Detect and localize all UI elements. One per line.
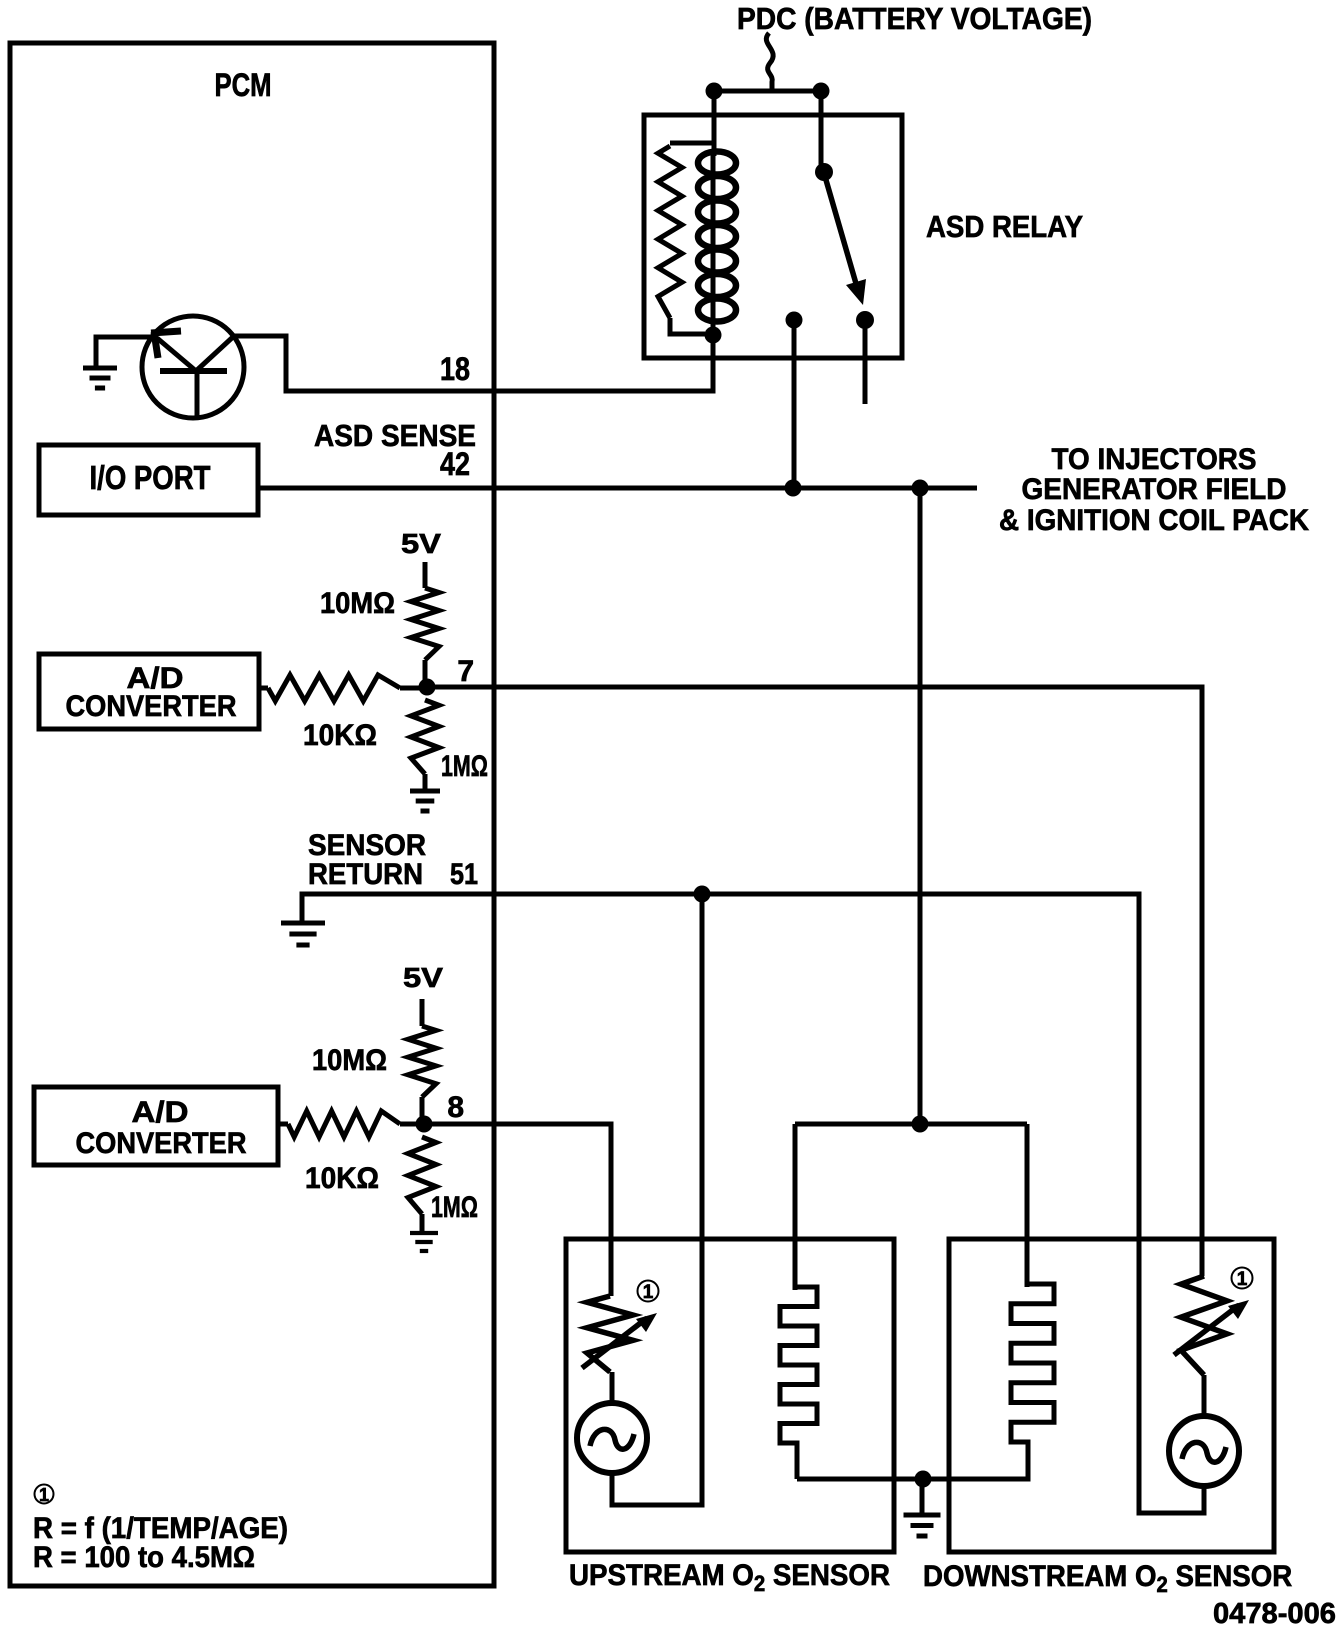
svg-text:18: 18 bbox=[440, 351, 470, 387]
note R = f (1/TEMP/AGE) bbox=[33, 1512, 288, 1545]
label RETURN bbox=[308, 858, 423, 891]
label ASD RELAY bbox=[926, 209, 1083, 244]
wire: heater drop upstream bbox=[793, 1124, 798, 1290]
wire: relay switch common bbox=[819, 91, 824, 168]
wire: heater feed from 42 bus bbox=[918, 488, 923, 1124]
label 5V (upper) bbox=[401, 528, 441, 559]
junction dot (42/heater feed) bbox=[912, 480, 929, 497]
junction dot (divider 2) bbox=[416, 1116, 433, 1133]
label CONVERTER (upper) bbox=[66, 690, 237, 723]
variable resistor (upstream sensing element) bbox=[582, 1296, 657, 1372]
resistor 1M ohm (upper) bbox=[411, 700, 439, 789]
svg-text:8: 8 bbox=[447, 1091, 464, 1124]
wire 51 (sensor return) bbox=[302, 894, 1204, 1513]
svg-text:10MΩ: 10MΩ bbox=[312, 1044, 387, 1077]
label PCM bbox=[215, 67, 272, 103]
note circle 1 (upstream) bbox=[638, 1281, 659, 1304]
svg-text:5V: 5V bbox=[401, 528, 441, 559]
junction dot (coil bottom) bbox=[705, 327, 722, 344]
label 10M ohm (lower) bbox=[312, 1044, 387, 1077]
note R = 100 to 4.5M ohm bbox=[33, 1541, 255, 1574]
pin label 18 bbox=[440, 351, 470, 387]
svg-text:TO INJECTORS: TO INJECTORS bbox=[1052, 443, 1257, 476]
svg-text:PDC (BATTERY VOLTAGE): PDC (BATTERY VOLTAGE) bbox=[737, 1, 1092, 36]
wire: transistor base to ground bbox=[96, 337, 152, 366]
wire 8 (downstream sense) bbox=[424, 1124, 611, 1296]
junction dot (51 branch) bbox=[694, 886, 711, 903]
label 10K ohm (lower) bbox=[305, 1162, 379, 1195]
label IGNITION COIL PACK bbox=[999, 504, 1309, 537]
wire: 5V lead (lower) bbox=[420, 999, 425, 1026]
wire: resistor to AC source (upstream) bbox=[610, 1372, 615, 1406]
wire: PDC squiggle feed bbox=[766, 33, 773, 91]
svg-text:UPSTREAM O2 SENSOR: UPSTREAM O2 SENSOR bbox=[569, 1559, 890, 1596]
resistor 1M ohm (lower) bbox=[408, 1137, 436, 1231]
label SENSOR bbox=[308, 829, 426, 862]
pin label 51 bbox=[450, 858, 478, 891]
junction dot (heater rail) bbox=[912, 1116, 929, 1133]
svg-text:GENERATOR FIELD: GENERATOR FIELD bbox=[1022, 473, 1287, 506]
svg-text:10KΩ: 10KΩ bbox=[303, 719, 377, 752]
wire: relay coil top lead bbox=[712, 91, 717, 156]
junction dot (switch contact) bbox=[856, 311, 874, 329]
ground (sensor return) bbox=[281, 923, 325, 945]
ground (transistor) bbox=[83, 368, 117, 388]
junction dot (supply left) bbox=[706, 83, 723, 100]
svg-text:RETURN: RETURN bbox=[308, 858, 423, 891]
junction dot (switch pivot) bbox=[815, 163, 833, 181]
variable resistor (downstream sensing element) bbox=[1174, 1276, 1249, 1375]
A/D converter box (upper) bbox=[39, 654, 259, 729]
junction dot (heater ground) bbox=[915, 1471, 932, 1488]
downstream O2 sensor box bbox=[949, 1239, 1274, 1552]
wire: 51 branch to upstream sensor bbox=[612, 894, 702, 1505]
svg-text:CONVERTER: CONVERTER bbox=[66, 690, 237, 723]
AC source (downstream sensor cell) bbox=[1169, 1416, 1239, 1486]
label ASD SENSE bbox=[314, 418, 476, 453]
pin label 42 bbox=[440, 446, 470, 482]
wire: heater drop downstream bbox=[1025, 1124, 1030, 1287]
wire: 5V lead (upper) bbox=[423, 562, 428, 588]
wire 42 (ASD relay output bus) bbox=[258, 486, 977, 491]
resistor 10K ohm (lower) bbox=[278, 1111, 424, 1137]
upstream O2 sensor box bbox=[566, 1239, 894, 1552]
svg-text:I/O PORT: I/O PORT bbox=[90, 459, 211, 496]
resistor 10M ohm (lower) bbox=[408, 1026, 436, 1124]
wire: relay supply rail bbox=[714, 89, 821, 94]
wire: relay contact stub bbox=[863, 328, 868, 404]
A/D converter box (lower) bbox=[34, 1087, 278, 1165]
note circle 1 (legend) bbox=[35, 1485, 54, 1506]
svg-text:A/D: A/D bbox=[132, 1096, 189, 1129]
resistor (relay coil suppressor) bbox=[658, 143, 714, 334]
label PDC (BATTERY VOLTAGE) bbox=[737, 1, 1092, 36]
label UPSTREAM O2 SENSOR bbox=[569, 1559, 890, 1596]
heater element (upstream) bbox=[780, 1287, 817, 1479]
label 10M ohm (upper) bbox=[320, 587, 395, 620]
svg-text:0478-006: 0478-006 bbox=[1213, 1598, 1336, 1626]
svg-text:10MΩ: 10MΩ bbox=[320, 587, 395, 620]
I/O PORT box bbox=[39, 445, 258, 515]
svg-text:1: 1 bbox=[1237, 1269, 1248, 1290]
label 5V (lower) bbox=[403, 962, 443, 993]
svg-text:ASD RELAY: ASD RELAY bbox=[926, 209, 1083, 244]
label I/O PORT bbox=[90, 459, 211, 496]
svg-text:PCM: PCM bbox=[215, 67, 272, 103]
label 10K ohm (upper) bbox=[303, 719, 377, 752]
svg-text:CONVERTER: CONVERTER bbox=[76, 1127, 247, 1160]
wire: resistor to AC source (downstream) bbox=[1202, 1375, 1207, 1418]
wire 7 (upstream sense) bbox=[427, 687, 1202, 1276]
svg-text:42: 42 bbox=[440, 446, 470, 482]
heater element (downstream) bbox=[1011, 1284, 1054, 1479]
resistor 10K ohm (upper) bbox=[258, 675, 427, 701]
svg-text:1: 1 bbox=[643, 1282, 654, 1303]
junction dot (divider 1) bbox=[419, 679, 436, 696]
svg-text:1MΩ: 1MΩ bbox=[441, 750, 488, 783]
label TO INJECTORS bbox=[1052, 443, 1257, 476]
note circle 1 (downstream) bbox=[1232, 1268, 1253, 1291]
ground (1M upper) bbox=[410, 791, 440, 811]
ASD relay box bbox=[644, 115, 902, 358]
svg-text:1: 1 bbox=[39, 1485, 49, 1505]
transistor Q1 (ASD driver) bbox=[142, 316, 244, 418]
svg-text:DOWNSTREAM O2 SENSOR: DOWNSTREAM O2 SENSOR bbox=[923, 1560, 1292, 1597]
pin label 8 bbox=[447, 1091, 464, 1124]
svg-text:& IGNITION COIL PACK: & IGNITION COIL PACK bbox=[999, 504, 1309, 537]
svg-text:10KΩ: 10KΩ bbox=[305, 1162, 379, 1195]
svg-text:1MΩ: 1MΩ bbox=[431, 1191, 478, 1224]
wire: heater ground lead bbox=[920, 1479, 925, 1513]
junction dot (42/relay pin) bbox=[785, 480, 802, 497]
relay coil (inductor) bbox=[698, 152, 736, 331]
svg-text:7: 7 bbox=[457, 655, 474, 688]
ground (1M lower) bbox=[410, 1233, 438, 1251]
svg-text:51: 51 bbox=[450, 858, 478, 891]
label GENERATOR FIELD bbox=[1022, 473, 1287, 506]
junction dot (relay pin) bbox=[786, 312, 803, 329]
AC source (upstream sensor cell) bbox=[577, 1403, 647, 1473]
ground (heater) bbox=[904, 1515, 941, 1536]
relay switch arm bbox=[826, 180, 866, 305]
label A/D (lower) bbox=[132, 1096, 189, 1129]
PCM module box bbox=[10, 43, 494, 1586]
svg-text:R = 100 to 4.5MΩ: R = 100 to 4.5MΩ bbox=[33, 1541, 255, 1574]
pin label 7 bbox=[457, 655, 474, 688]
wire 18 (ASD relay coil drive) bbox=[234, 336, 713, 391]
wire: heater return rail bbox=[797, 1444, 1028, 1479]
label A/D (upper) bbox=[127, 662, 184, 695]
label DOWNSTREAM O2 SENSOR bbox=[923, 1560, 1292, 1597]
label CONVERTER (lower) bbox=[76, 1127, 247, 1160]
wire: relay pin to 42 bus bbox=[792, 326, 797, 484]
junction dot (supply right) bbox=[813, 83, 830, 100]
label 1M ohm (lower) bbox=[431, 1191, 478, 1224]
resistor 10M ohm (upper) bbox=[411, 588, 439, 687]
wire: heater rail bbox=[795, 1122, 1027, 1127]
svg-text:5V: 5V bbox=[403, 962, 443, 993]
label 1M ohm (upper) bbox=[441, 750, 488, 783]
figure number 0478-006 bbox=[1213, 1598, 1336, 1626]
